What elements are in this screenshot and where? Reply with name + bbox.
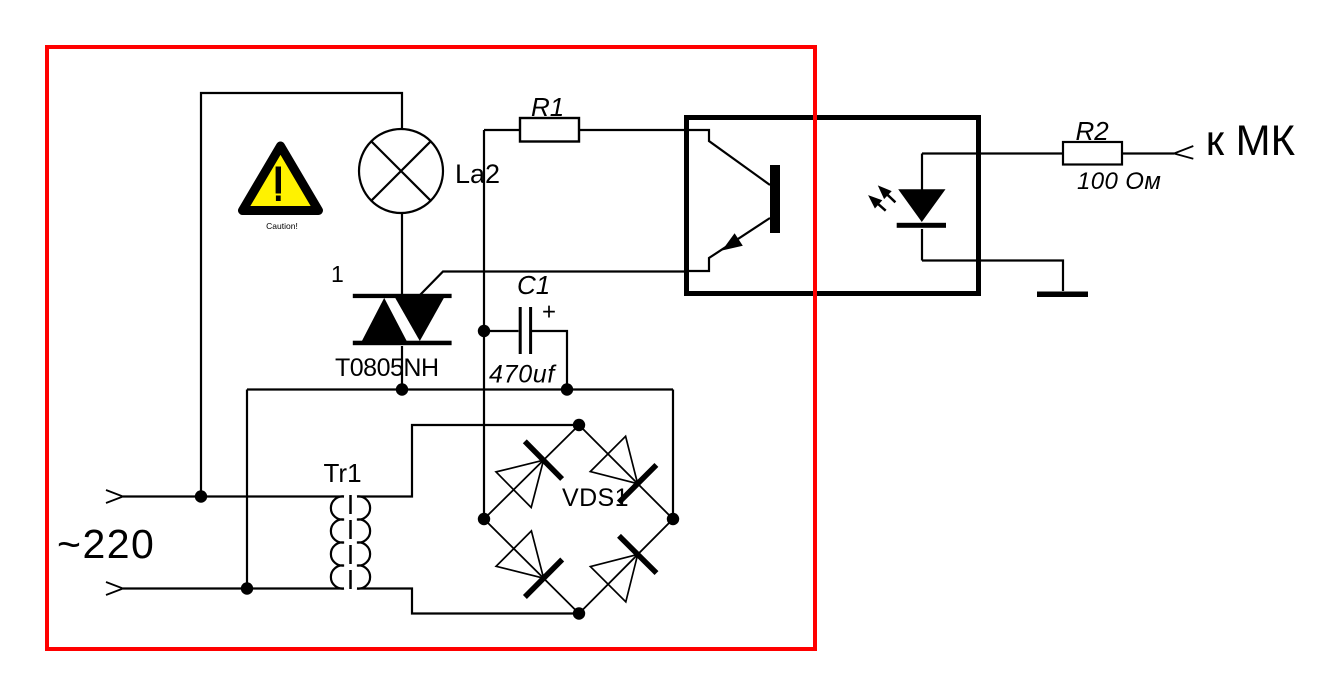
node: top input junction: [195, 490, 207, 502]
wire: opto LED cathode to ground: [922, 261, 1063, 292]
wire: opto LED anode to R2: [922, 152, 1063, 154]
wire: R1 right lead to optocoupler: [579, 129, 684, 131]
wire: triac gate to optocoupler: [420, 272, 684, 296]
wire: AC input bottom: [123, 587, 344, 589]
resistor R1: [520, 118, 579, 142]
transformer Tr1 secondary winding: [357, 496, 370, 588]
svg-text:к МК: к МК: [1206, 117, 1296, 165]
svg-text:1: 1: [331, 261, 344, 287]
diode D4 (lower-right) cathode bar: [619, 536, 657, 573]
bridge VDS1 diamond: [484, 425, 673, 614]
wire: rail left drop to bottom AC input: [246, 390, 248, 589]
wire: R2 to output: [1122, 152, 1174, 154]
transformer Tr1 core: [349, 495, 352, 590]
ground: [1037, 292, 1088, 298]
triac T0805NH: [353, 294, 452, 345]
wire: rail right drop to bridge right vertex: [672, 390, 674, 520]
output arrow к МК: [1174, 146, 1193, 159]
diode D3 triangle: [496, 531, 543, 578]
node: bridge top vertex: [573, 419, 585, 431]
opto LED cathode bar: [897, 223, 946, 228]
diode D4 triangle: [590, 554, 637, 602]
svg-text:470uf: 470uf: [489, 361, 557, 389]
svg-text:+: +: [542, 299, 556, 326]
wire: vertical bus R1/C1/bridge-left (484,130)-(484,519): [483, 130, 485, 519]
wire: R1 left lead: [484, 129, 520, 131]
red boundary frame of mains section: [47, 47, 815, 649]
wire: lamp top branch (201,496.5)-(201,93)-(402,93)-(402,129): [201, 93, 402, 497]
node: cap on rail: [561, 383, 573, 395]
phototransistor collector lead: [684, 130, 770, 185]
svg-text:VDS1: VDS1: [562, 484, 629, 512]
node: bridge bottom vertex: [573, 607, 585, 619]
input terminal arrow top: [106, 490, 123, 503]
node: triac on rail: [396, 383, 408, 395]
svg-text:T0805NH: T0805NH: [335, 354, 439, 382]
wire: lamp bottom to triac top: [401, 213, 403, 294]
diode D3 (lower-left) cathode bar: [525, 560, 562, 598]
phototransistor base bar: [770, 165, 780, 233]
wire: AC input top: [123, 495, 344, 497]
phototransistor emitter arrow: [722, 233, 743, 250]
diode D2 triangle: [590, 436, 637, 483]
warning exclamation: [276, 167, 281, 194]
svg-text:Caution!: Caution!: [266, 221, 298, 231]
node: bridge right vertex: [667, 513, 679, 525]
transformer Tr1 primary winding: [331, 496, 344, 588]
diode D2 (upper-right) cathode bar: [619, 465, 657, 503]
svg-text:Tr1: Tr1: [324, 458, 362, 488]
input terminal arrow bottom: [106, 582, 123, 595]
wire: secondary top to bridge top: [357, 425, 579, 497]
svg-text:~220: ~220: [57, 521, 155, 567]
wire: cap right lead down to rail: [532, 331, 567, 390]
node: bottom input junction: [241, 582, 253, 594]
wire: DC rail y=389.5: [247, 388, 673, 390]
wire: secondary bottom to bridge bottom: [357, 589, 579, 614]
phototransistor emitter lead: [684, 218, 770, 271]
svg-text:C1: C1: [517, 270, 550, 300]
node: cap junction on vertical bus: [478, 325, 490, 337]
resistor R2: [1063, 142, 1122, 165]
opto LED light arrow B: [868, 195, 886, 211]
opto LED light arrow A: [878, 185, 896, 202]
warning triangle: [243, 146, 319, 211]
opto LED triangle: [898, 189, 945, 222]
svg-text:La2: La2: [455, 159, 500, 189]
lamp La2: [359, 129, 443, 213]
svg-text:100 Ом: 100 Ом: [1077, 168, 1161, 195]
opto LED vertical leads: [921, 154, 923, 261]
svg-text:R2: R2: [1076, 116, 1110, 146]
capacitor C1 plates: [519, 307, 522, 354]
diode D1 (upper-left) cathode bar: [525, 441, 562, 479]
wire: cap left lead: [484, 330, 519, 332]
svg-text:R1: R1: [531, 92, 564, 122]
node: bridge left vertex: [478, 513, 490, 525]
diode D1 triangle: [496, 460, 544, 507]
optocoupler box U1: [687, 118, 979, 294]
wire: triac bottom to rail: [401, 346, 403, 390]
